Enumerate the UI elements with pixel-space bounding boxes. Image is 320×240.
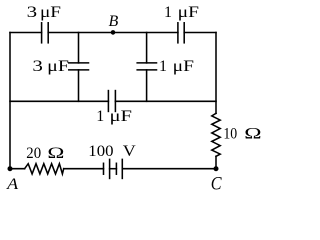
node B dot	[111, 30, 116, 35]
svg-text:μF: μF	[110, 108, 133, 125]
svg-text:A: A	[6, 176, 18, 193]
wire middle left segment	[10, 100, 108, 102]
wire top middle segment	[48, 32, 178, 34]
battery 100V cell2 tall plate	[121, 159, 123, 178]
capacitor C3 3uF vertical plates	[69, 62, 89, 64]
capacitor C5 1uF middle plates	[107, 91, 109, 112]
svg-text:3: 3	[27, 4, 37, 21]
wire branch1 lower	[78, 70, 80, 101]
svg-text:μF: μF	[178, 4, 199, 21]
wire right edge upper	[215, 33, 217, 114]
node C dot	[214, 166, 219, 171]
svg-text:3: 3	[32, 58, 43, 75]
wire top right segment	[184, 32, 216, 34]
svg-text:1: 1	[164, 4, 172, 21]
svg-text:μF: μF	[47, 58, 69, 75]
svg-text:Ω: Ω	[47, 145, 64, 162]
wire branch1 upper	[78, 33, 80, 63]
resistor R1 20 ohm zigzag	[25, 164, 64, 174]
svg-text:C: C	[211, 173, 222, 194]
svg-text:20: 20	[26, 145, 41, 162]
wire right edge lower	[215, 156, 217, 168]
node A dot	[8, 166, 13, 171]
capacitor C2 1uF top-right plates	[177, 23, 179, 43]
wire middle right segment	[115, 100, 216, 102]
svg-text:10: 10	[223, 125, 237, 142]
svg-text:1: 1	[159, 58, 167, 75]
battery 100V cell1 tall plate	[109, 159, 111, 178]
svg-text:1: 1	[96, 108, 104, 125]
wire bottom right segment	[122, 168, 216, 170]
svg-text:100: 100	[88, 143, 113, 160]
wire left edge	[9, 33, 11, 169]
wire top left segment	[10, 32, 42, 34]
wire bottom left segment	[10, 168, 25, 170]
capacitor C4 1uF vertical plates	[137, 62, 156, 64]
battery 100V cell2 short plate	[115, 163, 117, 174]
svg-text:μF: μF	[40, 4, 61, 21]
resistor R2 10 ohm zigzag	[212, 113, 220, 156]
battery 100V cell1 short plate	[103, 163, 105, 174]
battery connector tick	[110, 168, 117, 170]
wire branch2 upper	[146, 33, 148, 63]
svg-text:μF: μF	[173, 58, 194, 75]
svg-text:B: B	[109, 13, 119, 30]
capacitor C1 3uF top-left plates	[41, 23, 43, 43]
svg-text:Ω: Ω	[244, 125, 261, 142]
wire bottom middle segment	[64, 168, 104, 170]
svg-text:V: V	[123, 143, 136, 160]
wire branch2 lower	[146, 70, 148, 101]
